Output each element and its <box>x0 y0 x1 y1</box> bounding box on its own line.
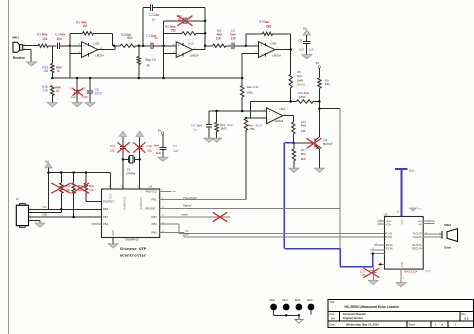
wire C7 to ground <box>162 149 164 157</box>
node loops R5 <box>204 32 206 34</box>
resistor R3 <box>120 44 135 47</box>
power 5V R9 <box>316 61 321 68</box>
svg-text:Cxx: Cxx <box>60 33 66 37</box>
svg-text:1uF: 1uF <box>309 48 314 52</box>
wire R2 to output <box>94 33 113 45</box>
resistor R9 vertical <box>318 68 321 101</box>
title block frame <box>328 300 474 328</box>
label MK2 <box>444 223 451 227</box>
pin 10 U2C <box>173 44 176 46</box>
label C5 <box>177 14 183 18</box>
svg-text:1: 1 <box>380 219 381 221</box>
svg-text:10k: 10k <box>216 36 222 40</box>
svg-text:J1: J1 <box>16 197 20 201</box>
svg-text:Threshold: Threshold <box>183 196 197 200</box>
capacitor C11 deleted <box>120 147 126 149</box>
svg-text:PB2/INT: PB2/INT <box>146 206 157 210</box>
svg-text:Rxx: Rxx <box>301 152 307 156</box>
label J1 <box>16 197 20 201</box>
label R20 <box>89 184 95 188</box>
svg-text:5V: 5V <box>158 129 162 133</box>
svg-text:+: + <box>260 44 262 48</box>
wire blue signal left <box>284 142 293 144</box>
wire loops right vertical <box>204 8 206 46</box>
label R8 value <box>297 79 304 83</box>
wire collector to module column <box>319 108 340 110</box>
delete mark C10 <box>133 142 145 152</box>
label C4 value <box>231 36 237 40</box>
svg-text:3M3: 3M3 <box>221 126 227 130</box>
wire blue signal bottom <box>340 266 373 268</box>
svg-text:R1OUT▪: R1OUT▪ <box>412 243 422 247</box>
svg-text:Title:: Title: <box>330 300 336 304</box>
speaker MK2 <box>442 229 457 242</box>
svg-text:27MHz: 27MHz <box>126 172 136 176</box>
wire to R6 <box>205 45 212 47</box>
label C11 value <box>110 149 115 153</box>
title block Sheet <box>409 323 458 327</box>
node rail x48 <box>47 171 49 173</box>
label C7 blue <box>173 144 177 148</box>
label C5 value <box>178 17 183 21</box>
pin 6 U1B <box>256 44 258 46</box>
label R16 <box>42 65 62 69</box>
resistor R19 pullup2 <box>72 173 75 217</box>
label C7 red value <box>156 151 161 155</box>
wire 5V to C8 <box>306 35 308 41</box>
node stage1 loop crossing <box>69 45 71 47</box>
mounting hole MH2 <box>282 298 289 310</box>
svg-text:R2: R2 <box>76 20 80 24</box>
op-amp U2C <box>176 42 199 58</box>
label R11 value <box>246 90 253 94</box>
svg-text:PB4: PB4 <box>152 222 158 226</box>
micro top pin numbers <box>108 186 140 188</box>
svg-text:BC547: BC547 <box>323 142 333 146</box>
resistor R1 <box>38 44 49 47</box>
wire C5 loop left <box>164 21 184 78</box>
svg-text:R13: R13 <box>256 123 262 127</box>
node rail x61 <box>60 171 62 173</box>
svg-text:PA3/RST: PA3/RST <box>103 199 114 203</box>
svg-text:U2C: U2C <box>188 42 195 46</box>
label C11 <box>110 144 116 148</box>
ground Q1 emitter <box>314 168 324 172</box>
node 3M3 top <box>215 110 217 112</box>
svg-text:1n: 1n <box>193 127 197 131</box>
transistor Q1 <box>315 137 320 149</box>
wire module column vertical <box>339 109 341 249</box>
resistor R2 <box>83 32 94 35</box>
svg-text:PB4: PB4 <box>103 222 109 226</box>
wire base <box>294 142 315 144</box>
svg-text:–: – <box>178 52 180 56</box>
resistor R16 vertical <box>51 46 54 78</box>
label U3 <box>384 213 388 217</box>
svg-text:▪V+: ▪V+ <box>418 219 423 223</box>
label 5V module <box>409 168 414 173</box>
svg-text:T2OUT▪: T2OUT▪ <box>413 235 423 239</box>
resistor R7 <box>262 32 272 35</box>
svg-text:GND: GND <box>111 230 115 236</box>
wire emitter to ground <box>318 149 320 168</box>
label R19 <box>78 184 84 188</box>
svg-text:U1: U1 <box>149 185 153 189</box>
ground C8 <box>302 55 312 59</box>
microphone MK1 <box>13 42 31 52</box>
label R13 <box>248 123 262 127</box>
wire U2A -in <box>245 117 267 119</box>
node pullup1 J1 <box>60 208 62 210</box>
svg-text:R1 IN: R1 IN <box>386 243 393 247</box>
label R11 <box>247 85 259 89</box>
module right pin names <box>412 219 422 250</box>
label C17 value <box>362 273 367 277</box>
svg-text:–: – <box>268 118 270 122</box>
label R3 value <box>127 36 132 40</box>
node rail end <box>241 77 243 79</box>
svg-text:1uF: 1uF <box>173 149 178 153</box>
label R8 alt <box>296 83 305 87</box>
label R5 value <box>171 29 177 33</box>
capacitor C10 deleted <box>137 147 143 149</box>
label C2 value <box>152 17 156 21</box>
node blue to pin <box>372 252 374 254</box>
svg-text:12: 12 <box>372 248 374 250</box>
pin 9 U2C <box>174 52 176 54</box>
label C2 <box>149 13 159 17</box>
capacitor C6 <box>87 78 93 103</box>
svg-text:▪V-: ▪V- <box>419 223 423 227</box>
label R3 <box>121 33 131 37</box>
svg-text:Cxx: Cxx <box>197 123 203 127</box>
micro pin name VCC <box>109 193 113 199</box>
power 5V C8 <box>303 26 310 35</box>
svg-text:R4: R4 <box>152 58 156 62</box>
svg-text:Receive: Receive <box>13 56 25 60</box>
svg-text:5V: 5V <box>303 26 307 30</box>
wire U2D -in <box>70 52 82 54</box>
wire U2A +node <box>209 110 267 112</box>
title block Date <box>330 323 380 327</box>
node U2C output <box>204 45 206 47</box>
svg-text:LM324: LM324 <box>190 53 199 57</box>
label C1 <box>55 33 65 37</box>
label C4x <box>69 87 73 91</box>
resistor R18 pullup1 <box>60 173 63 210</box>
svg-text:Cxx: Cxx <box>154 143 160 147</box>
wire R5 loop right <box>196 32 205 34</box>
wire blue signal horizontal <box>284 248 340 250</box>
resistor R8 vertical <box>289 50 292 102</box>
node rail U2C <box>162 77 164 79</box>
pin 7 U1B <box>277 48 279 50</box>
wire J1 pin3 <box>29 215 102 217</box>
svg-text:GND: GND <box>42 214 48 217</box>
ground module <box>396 283 406 287</box>
node R9 bottom <box>318 100 320 102</box>
pin 13 U2D <box>78 44 81 46</box>
svg-text:13k: 13k <box>301 129 306 133</box>
power 5V C7 <box>158 129 164 135</box>
svg-text:RA6/OSC2: RA6/OSC2 <box>123 196 127 209</box>
svg-text:PB2: PB2 <box>103 207 109 211</box>
label R19 value <box>78 188 83 192</box>
svg-text:Rxx: Rxx <box>301 124 307 128</box>
svg-text:22p: 22p <box>110 149 115 153</box>
label C7 red <box>154 143 160 147</box>
svg-text:1k: 1k <box>146 63 150 67</box>
ground C4C5 <box>72 103 82 107</box>
svg-text:–: – <box>260 52 262 56</box>
wire C8 to ground <box>306 44 308 55</box>
wire threshold <box>160 198 246 200</box>
svg-text:4u8: 4u8 <box>156 151 161 155</box>
wire mic pin2 to ground <box>30 49 32 61</box>
wire R5 loop left <box>164 32 182 34</box>
svg-text:U2A: U2A <box>279 107 285 111</box>
label R15 <box>42 85 61 89</box>
label R1 value <box>42 37 48 41</box>
label R6 value <box>216 36 222 40</box>
label Y1 value <box>126 172 136 176</box>
label C6 <box>95 88 99 92</box>
label R4 <box>145 58 156 62</box>
node U1B output <box>290 48 292 50</box>
pin 14 U2D <box>100 48 103 50</box>
title block title text <box>345 305 400 309</box>
svg-text:R2 IN: R2 IN <box>386 247 393 251</box>
label R16 value <box>43 69 60 73</box>
node R11 bottom <box>241 110 243 112</box>
wire R1 to C1 <box>49 45 57 47</box>
module U3 box <box>385 217 424 270</box>
capacitor C1 <box>57 42 59 49</box>
svg-text:+: + <box>83 44 85 48</box>
wire U2C -in <box>164 52 177 54</box>
svg-text:Signal: Signal <box>183 204 192 208</box>
node rail R16 <box>51 77 53 79</box>
label C3 <box>146 34 156 38</box>
delete mark Q1 <box>307 138 322 148</box>
node R8 bottom <box>290 100 292 102</box>
label C1 value <box>56 37 62 41</box>
ground C17 <box>368 280 378 284</box>
wire mic to R1 <box>27 45 39 47</box>
label C5x <box>82 87 86 91</box>
label Q1 <box>323 138 327 142</box>
micro pin name OSC2 <box>139 196 143 209</box>
capacitor C4 <box>232 42 234 49</box>
ground 3M3 <box>212 138 222 142</box>
svg-text:–: – <box>83 52 85 56</box>
svg-text:120k: 120k <box>299 95 306 99</box>
border frame left edge <box>8 0 10 334</box>
svg-text:T2 IN: T2 IN <box>386 235 392 239</box>
wire tx long <box>179 232 386 234</box>
svg-text:3k3: 3k3 <box>301 157 306 161</box>
svg-text:Rxx: Rxx <box>42 33 48 37</box>
svg-text:1M: 1M <box>83 24 88 28</box>
svg-text:GND: GND <box>400 262 404 268</box>
svg-text:Emit: Emit <box>444 245 451 249</box>
svg-text:2: 2 <box>439 235 440 237</box>
wire collector <box>318 102 320 137</box>
wire R10 to R9 <box>313 101 319 103</box>
label R12 <box>220 123 233 127</box>
svg-text:Date:: Date: <box>330 323 336 327</box>
title block Rev <box>461 313 469 320</box>
svg-text:6k2: 6k2 <box>127 36 132 40</box>
svg-text:Rxx: Rxx <box>145 58 151 62</box>
svg-text:1k: 1k <box>57 69 61 73</box>
svg-text:6: 6 <box>429 222 430 224</box>
power arrow OSC2 <box>136 131 143 136</box>
label R17 <box>301 148 307 152</box>
label R14 <box>301 120 307 124</box>
node MH3 <box>298 314 300 316</box>
capacitor C8 <box>303 42 310 44</box>
wire micro stub pin <box>92 222 102 224</box>
label R18 value <box>65 188 70 192</box>
label C8 <box>299 39 303 43</box>
ground C6 <box>85 103 95 107</box>
svg-text:VCC: VCC <box>418 208 423 210</box>
mounting hole MH4 <box>307 298 314 310</box>
op-amp U1B <box>259 42 282 58</box>
svg-text:Rx: Rx <box>185 233 189 237</box>
wire U2D -in to rail <box>69 53 71 78</box>
capacitor C7 <box>160 147 167 149</box>
ground J1 <box>35 223 45 227</box>
ground C7 <box>158 157 168 161</box>
svg-text:10n: 10n <box>56 37 62 41</box>
svg-text:10k: 10k <box>43 89 49 93</box>
label C10 value <box>147 149 152 153</box>
svg-text:1: 1 <box>439 232 440 234</box>
svg-text:LM324: LM324 <box>272 53 281 57</box>
label uController <box>120 253 147 258</box>
label C4x value <box>70 95 75 99</box>
node MH2 <box>285 314 287 316</box>
wire tx pin <box>160 222 180 233</box>
delete mark C17 <box>364 268 380 278</box>
label R14 red <box>301 124 307 128</box>
label C6 value <box>95 92 102 96</box>
label R5 <box>165 25 176 29</box>
svg-text:MH4: MH4 <box>307 298 313 302</box>
label R4 value <box>146 63 150 67</box>
crystal Y1 <box>122 156 141 163</box>
svg-text:5V: 5V <box>409 168 414 173</box>
label C5x value <box>82 95 89 99</box>
wire OSC1 vertical <box>122 137 124 189</box>
resistor R11 vertical <box>241 78 244 111</box>
capacitor C4C5 deleted <box>74 78 80 103</box>
svg-text:1n: 1n <box>154 36 158 40</box>
label Y1 <box>127 167 131 171</box>
svg-text:Rxx: Rxx <box>297 74 303 78</box>
node R4 branch <box>138 45 140 47</box>
wire feedback left R2 <box>70 33 83 53</box>
svg-text:3: 3 <box>380 223 381 225</box>
pin 3 U2A <box>264 109 266 111</box>
node rail x86 <box>85 171 87 173</box>
label C4 <box>230 29 236 37</box>
wire U2C output <box>193 46 206 50</box>
label C9 <box>191 123 202 127</box>
svg-text:MH2: MH2 <box>282 298 288 302</box>
node pin6 dot <box>379 263 381 265</box>
label R20 value <box>89 188 94 192</box>
svg-text:1u2: 1u2 <box>299 48 304 52</box>
wire blue 5V module <box>395 169 408 216</box>
wire signal <box>160 207 341 209</box>
label R10 value <box>299 95 306 99</box>
module pin name GND <box>400 262 404 268</box>
svg-text:T1 IN: T1 IN <box>386 232 392 236</box>
wire mounting holes <box>274 311 311 320</box>
svg-text:mute: mute <box>181 212 188 216</box>
svg-text:5k6: 5k6 <box>266 24 271 28</box>
svg-text:[3k01]: [3k01] <box>296 83 305 87</box>
wire OSC2 vertical <box>139 137 141 189</box>
wire C5 loop right <box>187 20 205 22</box>
node R7 branch <box>245 45 247 47</box>
svg-text:10k: 10k <box>89 188 94 192</box>
node rail x73 <box>72 171 74 173</box>
label Emit <box>444 245 451 249</box>
svg-text:Sheet: Sheet <box>409 323 416 327</box>
svg-text:+: + <box>178 44 180 48</box>
svg-text:10n: 10n <box>231 36 237 40</box>
label R17 value <box>301 157 306 161</box>
ground mic <box>27 62 37 66</box>
wire to R3 <box>115 45 121 47</box>
svg-text:22p: 22p <box>147 149 152 153</box>
label Signal <box>183 204 192 208</box>
svg-text:PB1: PB1 <box>152 198 158 202</box>
svg-text:1n: 1n <box>152 17 156 21</box>
svg-text:1k: 1k <box>56 89 60 93</box>
module bottom gnd <box>401 269 404 283</box>
delete mark C4C5 <box>72 88 83 95</box>
svg-text:0.5: 0.5 <box>465 316 469 320</box>
title block Size <box>330 313 336 320</box>
label C7 blue value <box>173 149 178 153</box>
ground mounting holes <box>295 320 303 324</box>
label gnd small <box>42 214 48 217</box>
svg-text:MH3: MH3 <box>295 298 301 302</box>
label R2 value <box>83 24 88 28</box>
svg-text:▪C2+: ▪C2+ <box>386 223 392 227</box>
label R9 <box>325 78 329 82</box>
svg-text:U1B: U1B <box>270 42 276 46</box>
label R17 red <box>301 152 307 156</box>
wire U1B -in to rail <box>242 53 258 78</box>
svg-text:PB0/TCC: PB0/TCC <box>146 190 157 194</box>
connector J1 <box>16 204 28 228</box>
label MK1 <box>13 35 20 39</box>
svg-text:Rxx: Rxx <box>247 85 253 89</box>
svg-text:T1OUT▪: T1OUT▪ <box>413 232 423 236</box>
svg-text:HC-SR04 Ultrasound Echo Locato: HC-SR04 Ultrasound Echo Locator <box>345 305 400 309</box>
svg-text:10k: 10k <box>42 37 48 41</box>
pin 8 U2C <box>194 48 196 50</box>
resistor R6 <box>213 44 227 47</box>
label Rx <box>185 233 189 237</box>
capacitor C5 deleted <box>184 17 186 24</box>
